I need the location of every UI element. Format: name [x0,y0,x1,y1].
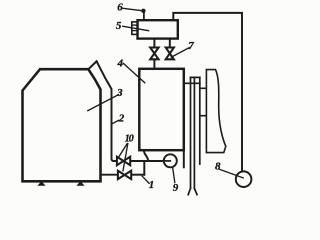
vertical feed line [199,77,201,164]
pointer line label 5 [123,26,149,30]
wire: lower pipe from tank to valve 10b [101,174,118,176]
duct 2 chamfer (tank top-right peak) [88,61,96,69]
svg-text:9: 9 [173,182,179,194]
svg-text:8: 8 [215,161,221,173]
svg-text:2: 2 [118,113,125,125]
wire: header stub inside pump to center [164,160,170,162]
wire: box 5 bottom stem left [153,39,155,48]
duct 2 right wall down to upper valve line [97,61,117,161]
wire: left valve stem to vessel 4 top [153,59,155,69]
pointer line label 7 [171,48,189,57]
valve 10a (upper horizontal bowtie) [117,157,130,166]
tank 1 (left vessel outline) [23,69,101,181]
vessel 4 (rectangle) [139,69,184,150]
motor block on box 5 left [132,22,138,35]
drop pipe right line [193,77,195,188]
tank foot left [38,182,44,186]
tank foot right [77,182,83,186]
wire: stem of dot 6 to box 5 [143,13,145,21]
blower 8 (circle) [236,171,252,187]
svg-text:3: 3 [116,87,123,99]
valve 10b (lower horizontal bowtie) [118,171,131,179]
wire: lower pipe from valve 10b to riser [131,174,144,176]
wire: vessel 4 neck elbow into header [144,150,148,161]
pointer line label 4 [123,63,145,83]
wire: vessel 4 right edge extension below bottom [183,150,185,167]
drop pipe flare right [194,188,197,194]
sensor dot 6 [141,9,145,13]
column (curved tall element) [206,70,225,153]
wire: pipe from box 5 top to right side and down to blower 8 [173,13,242,172]
svg-text:7: 7 [188,40,194,52]
svg-text:10: 10 [125,133,134,144]
valve under box 5 left (vertical bowtie) [150,48,158,60]
tick nozzle lower [200,115,207,117]
wire: upper header from valve 10a to pump 9 [130,160,171,162]
pointer line label 10 to valve 10b [123,144,128,171]
tick nozzle upper [200,87,207,89]
drop pipe flare left [188,188,190,194]
valve 7 (right vertical bowtie) [166,48,174,60]
svg-text:6: 6 [117,2,123,14]
pointer line label 3 [88,95,119,111]
pointer line label 9 [173,167,175,182]
pointer line label 10 to valve 10a [119,144,128,158]
svg-text:4: 4 [117,57,124,69]
notch cap [190,76,199,78]
pointer line label 1 [142,176,149,183]
svg-text:1: 1 [149,179,155,191]
box 5 (feeder) [138,20,178,38]
wire: riser from header to lower pipe [143,161,145,175]
svg-text:5: 5 [116,20,122,32]
pointer line label 2 [112,120,118,123]
pump 9 (circle) [164,154,177,167]
pointer line label 6 [123,8,141,10]
pointer line label 8 [220,169,244,178]
drop pipe left line [190,77,192,188]
shelf line right of vessel 4 [184,82,200,84]
wire: box 5 bottom stem right [169,39,171,48]
